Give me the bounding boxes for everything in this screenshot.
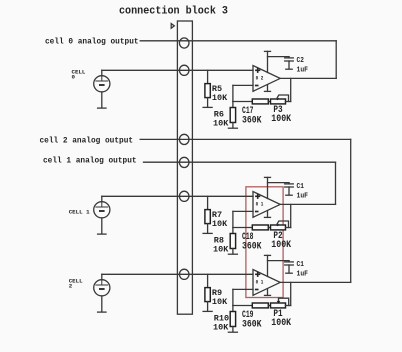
svg-text:360K: 360K	[242, 241, 262, 252]
svg-text:100K: 100K	[271, 318, 291, 329]
connector pin-1 marker	[171, 24, 174, 29]
svg-text:cell 0 analog output: cell 0 analog output	[45, 38, 139, 46]
potentiometer P2 wiper arm	[276, 221, 288, 228]
svg-text:1uF: 1uF	[297, 66, 309, 74]
resistor R7	[205, 196, 210, 232]
op-amp U3 plus input marker	[255, 272, 260, 277]
svg-text:2: 2	[69, 282, 73, 289]
resistor R5	[205, 70, 210, 106]
resistor R9	[205, 274, 210, 310]
wire through connector pin 1	[177, 40, 192, 42]
wire C19 to potentiometer P1	[268, 305, 270, 307]
wire op-amp U3 output	[280, 281, 351, 283]
ground bar below capacitor C1	[286, 272, 292, 274]
ground below op-amp U1	[265, 85, 271, 92]
resistor R6	[230, 102, 235, 128]
wire feedback node to C18	[233, 227, 252, 229]
wire op-amp U1 inverting input to feedback node	[233, 85, 253, 101]
wire feedback loop to connector	[192, 138, 350, 140]
positive supply to op-amp U1	[265, 51, 271, 72]
wire feedback loop to connector	[192, 40, 336, 42]
potentiometer P1 wiper arm	[277, 298, 289, 305]
connector block J1 body	[177, 21, 192, 314]
wire op-amp U2 output	[280, 203, 335, 205]
svg-text:cell 2 analog output: cell 2 analog output	[40, 138, 134, 146]
connector pin 6 (cell 2)	[179, 269, 189, 279]
svg-text:10K: 10K	[212, 297, 228, 307]
wire CELL 1 to connector and op-amp input	[102, 195, 253, 197]
op-amp U3	[253, 270, 280, 296]
ground bar below R10	[228, 331, 237, 333]
wire CELL 2 to connector and op-amp input	[102, 273, 253, 275]
connector pin 3 (cell 2 analog output)	[179, 134, 189, 144]
ground bar below R5	[203, 106, 212, 108]
wire supply rail to capacitor C2	[268, 56, 290, 58]
resistor R8	[230, 228, 235, 254]
wire P3 to output junction	[286, 78, 291, 101]
capacitor C19 360K (box symbol)	[252, 303, 268, 308]
potentiometer P2 body	[271, 225, 286, 230]
wire through connector pin 4	[177, 161, 192, 163]
svg-text:10K: 10K	[213, 244, 229, 254]
voltage source CELL 0	[94, 70, 110, 108]
svg-text:1uF: 1uF	[297, 192, 309, 200]
wire output feedback loop vertical	[350, 139, 352, 282]
ground bar below capacitor C2	[286, 68, 292, 70]
svg-text:100K: 100K	[271, 240, 291, 251]
op-amp U1	[253, 66, 280, 92]
svg-text:CELL 1: CELL 1	[69, 208, 90, 215]
ground bar below R6	[228, 127, 237, 129]
svg-text:10K: 10K	[213, 322, 229, 332]
positive supply to op-amp U2	[265, 177, 271, 198]
svg-text:cell 1 analog output: cell 1 analog output	[43, 158, 137, 166]
capacitor C18 360K (box symbol)	[252, 225, 268, 230]
ground bar below R7	[203, 232, 212, 234]
wire C18 to potentiometer P2	[268, 227, 270, 229]
connector pin 4 (cell 1 analog output)	[179, 157, 189, 167]
connector pin 1 (cell 0 analog output)	[179, 38, 189, 48]
capacitor C17 360K (box symbol)	[252, 99, 268, 104]
wire op-amp U1 output	[280, 77, 336, 79]
wire cell 2 analog output label to connector	[140, 138, 177, 140]
potentiometer P1 body	[271, 303, 286, 308]
svg-text:10K: 10K	[213, 118, 229, 128]
svg-text:100K: 100K	[271, 114, 291, 125]
svg-text:10K: 10K	[212, 219, 228, 229]
op-amp U1 minus input marker	[255, 85, 259, 87]
wire output feedback loop vertical	[335, 162, 337, 204]
op-amp U2	[253, 192, 280, 218]
svg-text:360K: 360K	[242, 319, 262, 330]
wire P1 to output junction	[286, 282, 291, 305]
wire op-amp U3 inverting input to feedback node	[233, 289, 253, 305]
red highlight rectangle around cell1/cell2 amplifier circuits	[246, 187, 283, 298]
op-amp U3 minus input marker	[255, 289, 259, 291]
wire P2 to output junction	[286, 204, 291, 227]
svg-text:C1: C1	[297, 261, 305, 269]
ground below op-amp U3	[265, 289, 271, 296]
wire supply rail to capacitor C1	[268, 182, 290, 184]
potentiometer P3 body	[271, 99, 286, 104]
positive supply to op-amp U3	[265, 255, 271, 276]
svg-text:0 2: 0 2	[256, 76, 264, 82]
wire through connector pin 3	[177, 138, 192, 140]
ground bar below R9	[203, 310, 212, 312]
wire cell 0 analog output label to connector	[140, 40, 177, 42]
svg-text:C1: C1	[297, 183, 305, 191]
wire cell 1 analog output label to connector	[144, 161, 178, 163]
svg-text:connection block 3: connection block 3	[119, 5, 228, 17]
voltage source CELL 1	[94, 196, 110, 234]
wire feedback node to C17	[233, 101, 252, 103]
ground below op-amp U2	[265, 211, 271, 218]
svg-text:0 1: 0 1	[256, 280, 264, 286]
capacitor C2 1uF	[285, 57, 294, 69]
connector pin 5 (cell 1)	[179, 191, 189, 201]
resistor R10	[230, 306, 235, 332]
capacitor C1 1uF	[285, 183, 294, 195]
op-amp U2 plus input marker	[255, 194, 260, 199]
ground bar below R8	[228, 253, 237, 255]
ground bar below capacitor C1	[286, 194, 292, 196]
wire feedback node to C19	[233, 305, 252, 307]
svg-text:0 1: 0 1	[256, 202, 264, 208]
voltage source CELL 2	[94, 274, 110, 312]
svg-text:C2: C2	[297, 57, 305, 65]
capacitor C1 1uF	[285, 261, 294, 273]
wire CELL 0 to connector and op-amp input	[102, 69, 253, 71]
wire output feedback loop vertical	[335, 41, 337, 79]
wire supply rail to capacitor C1	[268, 260, 290, 262]
svg-text:1uF: 1uF	[297, 270, 309, 278]
op-amp U2 minus input marker	[255, 211, 259, 213]
potentiometer P3 wiper arm	[276, 95, 288, 102]
svg-text:10K: 10K	[212, 93, 228, 103]
op-amp U1 plus input marker	[255, 68, 260, 73]
wire op-amp U2 inverting input to feedback node	[233, 211, 253, 227]
svg-text:0: 0	[72, 74, 76, 81]
svg-text:360K: 360K	[242, 115, 262, 126]
wire C17 to potentiometer P3	[268, 101, 270, 103]
connector pin 2 (cell 0)	[179, 65, 189, 75]
wire feedback loop to connector	[192, 161, 335, 163]
